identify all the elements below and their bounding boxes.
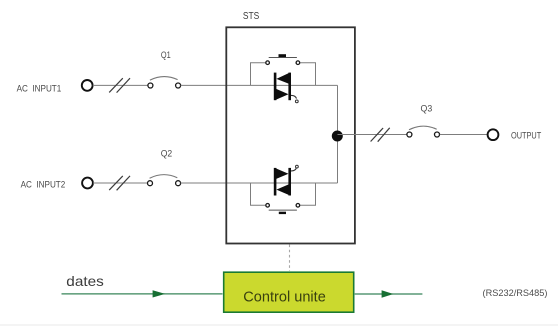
node junction dot xyxy=(332,131,343,142)
terminal input1 xyxy=(82,80,93,91)
svg-text:(RS232/RS485): (RS232/RS485) xyxy=(483,288,548,298)
wire data arrow right xyxy=(355,293,423,295)
wire module1 bypass left riser xyxy=(251,63,266,86)
arrowhead data right xyxy=(382,290,394,298)
switch Q3 blade arc xyxy=(409,126,437,130)
slash marks input1 xyxy=(109,78,130,92)
svg-text:OUTPUT: OUTPUT xyxy=(511,130,542,140)
wire input1 left segment xyxy=(93,84,148,86)
switch Q1 blade arc xyxy=(150,77,178,81)
wire vertical bus joining modules xyxy=(337,85,339,183)
svg-text:AC INPUT1: AC INPUT1 xyxy=(17,83,62,94)
svg-text:Q1: Q1 xyxy=(161,49,171,60)
wire output left segment xyxy=(338,134,408,136)
thyristor pair SCR1 xyxy=(274,73,291,101)
slash marks input2 xyxy=(109,176,130,190)
wire output right segment xyxy=(440,134,488,136)
bottom hairline xyxy=(0,324,558,326)
STS box xyxy=(226,27,355,243)
breaker module1 blade line xyxy=(269,57,297,59)
svg-text:Control unite: Control unite xyxy=(243,290,325,306)
thyristor pair SCR2 xyxy=(274,168,291,196)
breaker module2 bypass contact circles xyxy=(266,204,270,208)
svg-text:dates: dates xyxy=(66,273,104,289)
terminal input2 xyxy=(82,178,93,189)
switch Q1 contact circles xyxy=(148,83,153,88)
svg-text:Q3: Q3 xyxy=(421,102,433,113)
wire module1 bypass right riser xyxy=(300,63,315,86)
breaker module1 bar xyxy=(279,54,287,57)
wire module2 bypass left riser xyxy=(251,183,266,205)
wire data arrow left xyxy=(62,293,223,295)
arrowhead data left xyxy=(153,290,166,297)
slash marks output xyxy=(371,128,390,142)
wire control dashed link xyxy=(289,245,291,272)
wire module2 bypass right riser xyxy=(300,183,315,205)
breaker module1 bypass contact circles xyxy=(266,61,270,65)
wire input2 left segment xyxy=(93,182,148,184)
breaker module2 blade line xyxy=(269,209,297,211)
gate SCR1 xyxy=(291,95,297,98)
terminal output xyxy=(488,129,499,140)
svg-text:STS: STS xyxy=(243,11,260,22)
switch Q2 blade arc xyxy=(150,175,178,179)
switch Q3 contact circles xyxy=(407,132,412,137)
svg-text:AC INPUT2: AC INPUT2 xyxy=(21,180,66,191)
wire input1 right segment into STS box xyxy=(181,84,338,86)
switch Q2 contact circles xyxy=(148,181,153,186)
control unit box xyxy=(224,272,354,312)
breaker module2 bar xyxy=(279,212,286,214)
wire input2 right segment into STS box xyxy=(181,182,338,184)
svg-text:Q2: Q2 xyxy=(161,147,173,158)
gate SCR2 xyxy=(291,168,297,171)
